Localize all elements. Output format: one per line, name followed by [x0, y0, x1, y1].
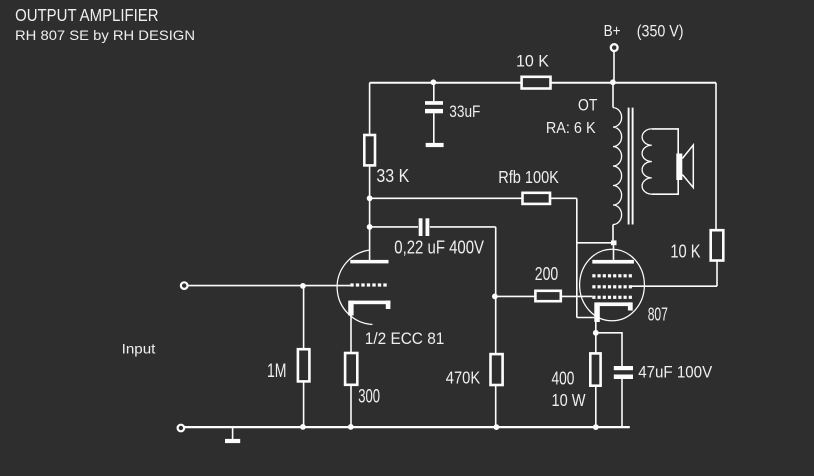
junction cathode bypass tap	[593, 330, 599, 336]
wire Rfb vertical to cathode tie	[576, 198, 578, 317]
label 300	[358, 387, 380, 408]
input terminal top	[181, 282, 188, 289]
svg-text:807: 807	[648, 303, 668, 324]
svg-text:10 K: 10 K	[516, 51, 550, 70]
junction rail 400	[593, 424, 599, 430]
capacitor C1 33uF	[425, 83, 443, 143]
label (350 V)	[637, 22, 684, 40]
label RA: 6 K	[546, 120, 596, 137]
svg-text:Rfb 100K: Rfb 100K	[498, 167, 559, 187]
V2 cathode bar with hooks	[594, 302, 632, 322]
label B+	[604, 23, 621, 40]
svg-text:1/2 ECC 81: 1/2 ECC 81	[365, 330, 445, 348]
svg-text:10 W: 10 W	[552, 390, 586, 410]
transformer core	[629, 108, 633, 225]
B+ terminal	[611, 44, 618, 51]
V1 cathode bar with hooks	[348, 301, 390, 316]
label Input	[122, 340, 156, 356]
wire 1M lower lead	[303, 381, 305, 427]
resistor R6 470K	[491, 354, 503, 385]
svg-text:RH 807 SE by RH DESIGN: RH 807 SE by RH DESIGN	[15, 27, 195, 43]
wire 400 lower lead	[595, 386, 597, 427]
svg-text:OT: OT	[578, 95, 597, 114]
speaker LS1	[676, 145, 693, 188]
label 807	[648, 303, 668, 324]
svg-text:1M: 1M	[267, 361, 287, 382]
wire 10K right lower lead	[716, 261, 718, 287]
junction coupling cap tap	[367, 224, 373, 230]
wire bypass cap bottom	[621, 377, 623, 427]
ground bar of 33uF	[426, 143, 444, 147]
wire secondary to speaker	[652, 129, 678, 194]
input terminal bottom	[178, 425, 185, 432]
junction 1M top	[300, 283, 306, 289]
svg-text:10 K: 10 K	[670, 241, 701, 262]
wire tie to cathode lead	[577, 317, 597, 319]
svg-text:33uF: 33uF	[449, 102, 480, 121]
wire 300 lower lead	[350, 385, 352, 427]
wire V2 screen lead to 10K	[632, 285, 717, 287]
title text	[15, 5, 195, 43]
junction grid node 807	[492, 294, 498, 300]
resistor R4 1M	[298, 349, 310, 381]
junction rail 470K	[494, 424, 500, 430]
wire vertical to 470K and grid node	[495, 227, 497, 427]
capacitor C2 0.22uF 400V	[419, 218, 430, 236]
wire V1 cathode lead	[350, 316, 352, 354]
wire rail corner down to 10K right	[715, 83, 717, 231]
wire V2 plate lead	[613, 245, 615, 260]
wire tie to plate junction	[577, 242, 614, 244]
junction on rail at B+	[610, 79, 616, 85]
svg-text:300: 300	[358, 387, 380, 408]
wire bottom rail	[185, 426, 630, 428]
label Rfb 100K	[498, 167, 559, 187]
capacitor C3 47uF 100V	[614, 366, 633, 379]
wire coupling cap right	[430, 226, 496, 228]
svg-text:Input: Input	[122, 340, 156, 356]
resistor R5 300	[345, 353, 357, 385]
tube V1 1/2 ECC81 envelope	[337, 250, 372, 324]
resistor R7 200	[535, 291, 560, 301]
junction Rfb tap	[367, 195, 373, 201]
label 400	[552, 368, 575, 388]
ground symbol	[225, 427, 240, 443]
label 10 K (top)	[516, 51, 550, 70]
V2 plate bar	[592, 260, 634, 264]
label 10 K (right)	[670, 241, 701, 262]
wire Rfb horizontal	[370, 197, 577, 199]
resistor R8 10K (right)	[711, 230, 724, 260]
resistor R3 Rfb 100K	[523, 193, 551, 204]
svg-text:(350 V): (350 V)	[637, 22, 684, 40]
label 33 K	[376, 165, 409, 186]
svg-text:200: 200	[535, 263, 558, 284]
resistor R1 10K (top)	[522, 77, 551, 89]
wire B+ lead	[613, 52, 615, 83]
V1 plate bar	[350, 260, 388, 264]
svg-text:OUTPUT AMPLIFIER: OUTPUT AMPLIFIER	[15, 5, 159, 25]
wire input to grid	[188, 285, 350, 287]
V2 grid rows (3 dashed)	[592, 274, 632, 299]
junction square at 807 plate	[611, 240, 617, 245]
label OT	[578, 95, 597, 114]
label 200	[535, 263, 558, 284]
label 1M	[267, 361, 287, 382]
wire primary bottom lead	[612, 225, 614, 241]
wire 200 to 807 grid	[561, 295, 593, 297]
wire 1M upper lead	[303, 286, 305, 349]
tube V2 807 envelope	[580, 249, 645, 321]
label 1/2 ECC 81	[365, 330, 445, 348]
wire V2 cathode lead	[595, 322, 597, 354]
transformer T1 OT primary winding	[613, 108, 622, 225]
svg-text:470K: 470K	[446, 367, 481, 387]
svg-text:47uF 100V: 47uF 100V	[638, 363, 713, 382]
label 0,22 uF 400V	[394, 237, 484, 258]
resistor R2 33K	[364, 135, 375, 165]
junction on rail at 33uF	[431, 79, 437, 85]
wire left vertical (rail to V1 plate)	[369, 83, 371, 260]
wire primary top lead	[612, 83, 614, 108]
wire coupling cap left	[370, 226, 418, 228]
label 10 W	[552, 390, 586, 410]
wire top rail	[370, 82, 716, 84]
svg-text:400: 400	[552, 368, 575, 388]
wire grid node to 200	[495, 295, 536, 297]
svg-text:B+: B+	[604, 23, 621, 40]
V1 grid dashes	[350, 283, 386, 286]
svg-text:RA: 6 K: RA: 6 K	[546, 120, 596, 137]
junction rail 300	[348, 424, 354, 430]
svg-text:33 K: 33 K	[376, 165, 409, 186]
wire bypass cap top	[596, 333, 622, 366]
label 33uF	[449, 102, 480, 121]
label 47uF 100V	[638, 363, 713, 382]
transformer secondary winding	[642, 129, 652, 194]
label 470K	[446, 367, 481, 387]
resistor R9 400 10W	[590, 353, 600, 385]
svg-text:0,22 uF 400V: 0,22 uF 400V	[394, 237, 484, 258]
junction rail 1M	[300, 424, 306, 430]
